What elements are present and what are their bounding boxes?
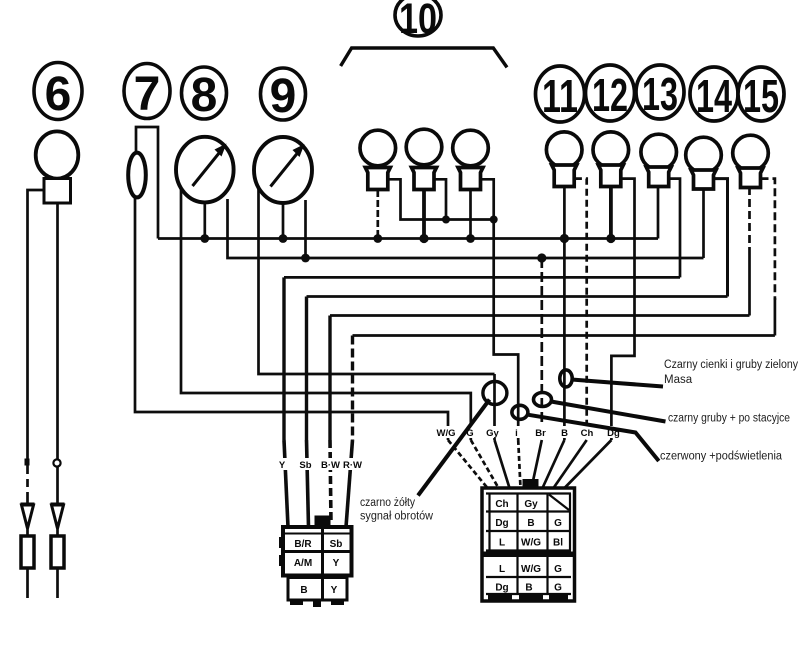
wire label Br (533, 426, 547, 439)
number circle 15 (738, 67, 784, 121)
wire fan B to connector (543, 440, 565, 488)
svg-text:czerwony +podświetlenia: czerwony +podświetlenia (660, 451, 783, 463)
junction dot bulbC on line1 (466, 234, 475, 243)
wire label Ch (580, 426, 595, 439)
number circle 10 (395, 0, 441, 36)
number circle 6 (34, 63, 82, 120)
svg-text:L: L (499, 538, 505, 549)
svg-text:6: 6 (45, 68, 72, 121)
wire fan BW to left connector (330, 440, 331, 524)
wire bulb15 base stub (761, 179, 775, 300)
svg-text:Dg: Dg (495, 518, 508, 529)
bulb A of group 10 (360, 130, 396, 189)
junction dot gauge9 right leg on line2 (301, 254, 310, 263)
svg-text:8: 8 (191, 69, 218, 122)
junction dot bulb11 on line1 (560, 234, 569, 243)
bulb 13 (641, 134, 677, 186)
wire line3 Y net (284, 276, 680, 279)
wire label B (558, 426, 570, 439)
wire label B/W (321, 458, 340, 471)
junction dot gauge9 left leg on line1 (279, 234, 288, 243)
wire fan Dg to connector (565, 440, 612, 488)
wire Sb drop (305, 297, 308, 441)
annotation pointer czarno zolty (418, 400, 490, 496)
number circle 7 (124, 64, 170, 119)
svg-text:Y: Y (333, 558, 340, 569)
number circle 14 (690, 67, 738, 121)
wire bulbB base stub (435, 179, 446, 219)
wire fan Sb to left connector (307, 440, 309, 527)
svg-text:B: B (561, 428, 568, 439)
left connector latch (315, 516, 331, 528)
svg-text:Gy: Gy (486, 428, 499, 439)
wire fan Y to left connector (284, 440, 288, 527)
wire bulb14 base stub (714, 179, 728, 297)
left connector body (283, 527, 352, 576)
annotation line Masa (572, 380, 664, 387)
wire component7 top to line1 (136, 127, 158, 239)
wire component7 bottom to W/G label (135, 198, 448, 440)
svg-text:B/R: B/R (294, 539, 312, 550)
wire Y drop (282, 277, 285, 440)
svg-text:Br: Br (535, 428, 546, 439)
svg-text:G: G (554, 583, 562, 594)
svg-text:Y: Y (331, 585, 338, 596)
junction dot Br on line2 (537, 253, 546, 262)
bulb 12 (593, 132, 629, 187)
wire label R/W (343, 458, 362, 471)
svg-text:9: 9 (270, 70, 297, 123)
wire line1 illumination bus y238 (158, 237, 658, 240)
wire gauge9 right leg (304, 200, 307, 258)
component 7 sensor (128, 153, 146, 198)
svg-text:czarno żółty: czarno żółty (360, 497, 415, 509)
svg-text:Bl: Bl (553, 538, 563, 549)
wire bulbA center leg (376, 190, 379, 239)
svg-text:sygnał obrotów: sygnał obrotów (360, 511, 434, 523)
left connector feet (290, 599, 303, 605)
wire label Y (276, 458, 288, 471)
marker ellipse czerwony (512, 405, 528, 419)
annotation line czerwony (529, 415, 659, 461)
bullet terminal left (21, 504, 35, 568)
wire line6 RW net (353, 334, 775, 337)
wire gauge9 left leg (282, 203, 285, 239)
marker ellipse czarny gruby (534, 393, 552, 407)
wire Gy drop through marker (493, 374, 496, 440)
marker ellipse Gy sygnal obrotow (483, 382, 507, 405)
svg-text:czarny gruby + po stacyjce: czarny gruby + po stacyjce (668, 413, 790, 425)
junction dot bulbB on line1 (419, 234, 428, 243)
wire fan Gy to connector (495, 440, 510, 488)
wire bulb13 base stub (669, 179, 681, 278)
wire bulbC base stub and drop to i label (482, 179, 519, 440)
svg-text:Czarny cienki i gruby zielony: Czarny cienki i gruby zielony (664, 359, 798, 371)
gauge 9 (254, 137, 312, 203)
svg-text:B: B (527, 518, 534, 529)
wire label W/G (436, 426, 456, 439)
wire bulb11 base stub to Ch label (575, 179, 587, 440)
svg-text:W/G: W/G (437, 428, 456, 439)
svg-text:15: 15 (743, 70, 779, 122)
wire RW drop (351, 336, 354, 441)
svg-text:R·W: R·W (343, 460, 362, 471)
wire gauge8 left leg (203, 202, 206, 239)
wire fan W/G to connector (448, 440, 488, 488)
svg-text:Sb: Sb (299, 460, 311, 471)
wire bulbA base stub and group10 base bus (387, 179, 494, 219)
annotation line czarny gruby (551, 402, 666, 422)
terminal label square left (25, 459, 30, 466)
right connector body (482, 488, 575, 601)
wire label Gy (485, 426, 500, 439)
svg-text:B: B (525, 583, 532, 594)
wire fan i to connector (518, 440, 520, 488)
junction dot bulbB stub on base bus (442, 216, 450, 224)
svg-text:11: 11 (542, 70, 578, 122)
wire fan Br to connector (532, 440, 542, 488)
wire fan Ch to connector (554, 440, 587, 488)
number circle 12 (586, 65, 635, 121)
wire label Dg (606, 426, 621, 439)
svg-text:W/G: W/G (521, 564, 541, 575)
wire bulb14 center leg (702, 187, 705, 258)
svg-text:13: 13 (642, 68, 678, 120)
wire label Sb (298, 458, 313, 471)
wire BW drop (328, 316, 331, 441)
svg-text:Gy: Gy (524, 499, 538, 510)
junction dot bulb12 on line1 (606, 234, 615, 243)
left connector side tabs (279, 537, 285, 548)
wire label i (512, 426, 521, 439)
wire fan G to connector (471, 440, 499, 488)
gauge 8 (176, 137, 234, 203)
svg-text:Ch: Ch (581, 428, 594, 439)
number circle 13 (636, 65, 684, 119)
bulb 15 (733, 135, 769, 187)
number circle 11 (536, 66, 585, 122)
svg-text:A/M: A/M (294, 558, 312, 569)
right connector feet (488, 594, 512, 601)
wire gauge8 left-left leg to G label (181, 186, 471, 440)
svg-text:B: B (300, 585, 307, 596)
svg-text:Ch: Ch (495, 499, 508, 510)
wire bulb11 center leg to B label (563, 187, 566, 441)
left connector bottom section (288, 578, 347, 601)
wire bulbB center leg thick (422, 190, 426, 239)
svg-text:10: 10 (399, 0, 437, 43)
right connector latch (523, 479, 539, 489)
svg-text:7: 7 (134, 68, 161, 121)
svg-text:L: L (499, 564, 505, 575)
wire gauge8 right leg and line2 (228, 199, 704, 258)
junction dot bulbC stub on base bus (490, 216, 498, 224)
wire gap artifacts on bulb6 left lead (25, 474, 30, 479)
svg-text:G: G (554, 564, 562, 575)
bulb 11 (546, 132, 582, 187)
svg-text:14: 14 (696, 70, 732, 122)
svg-text:Masa: Masa (664, 374, 693, 386)
bullet terminal right (51, 504, 65, 568)
bulb B of group 10 (406, 129, 442, 189)
number circle 9 (261, 68, 306, 120)
svg-text:Sb: Sb (330, 539, 343, 550)
junction dot gauge8 left leg on line1 (200, 234, 209, 243)
junction dot bulbA on line1 (373, 234, 382, 243)
wire fan RW to left connector (346, 440, 353, 527)
svg-text:B·W: B·W (321, 460, 340, 471)
svg-text:Y: Y (279, 460, 286, 471)
right connector diagonal cell (549, 495, 569, 511)
right connector divider band (482, 552, 575, 558)
marker ellipse Masa (560, 370, 572, 387)
svg-text:G: G (554, 518, 562, 529)
terminal label circle right (53, 459, 60, 466)
wire label G (464, 426, 476, 439)
wire bulb13 center leg (657, 187, 660, 239)
bracket under 10 (341, 48, 507, 67)
bulb 14 (686, 137, 722, 189)
wire bulb12 center leg thick (609, 187, 613, 239)
wire Br drop from line2 (540, 258, 543, 440)
wire bulb6 center lead (56, 203, 59, 598)
wire line5 BW net (330, 314, 750, 317)
svg-text:W/G: W/G (521, 538, 541, 549)
bulb 6 (36, 131, 79, 203)
svg-text:i: i (515, 428, 518, 439)
svg-text:12: 12 (592, 69, 628, 121)
wire bulb15 center leg (748, 187, 751, 255)
number circle 8 (182, 67, 227, 119)
wire bulbC center leg (469, 190, 472, 239)
wire line4 Sb net (307, 295, 728, 298)
svg-text:Dg: Dg (495, 583, 508, 594)
wire bulb6 left lead (28, 190, 45, 598)
wire gauge9 left-left leg to Gy line (259, 188, 495, 374)
bulb C of group 10 (453, 130, 489, 189)
wire bulb12 base stub to Dg (611, 179, 634, 440)
